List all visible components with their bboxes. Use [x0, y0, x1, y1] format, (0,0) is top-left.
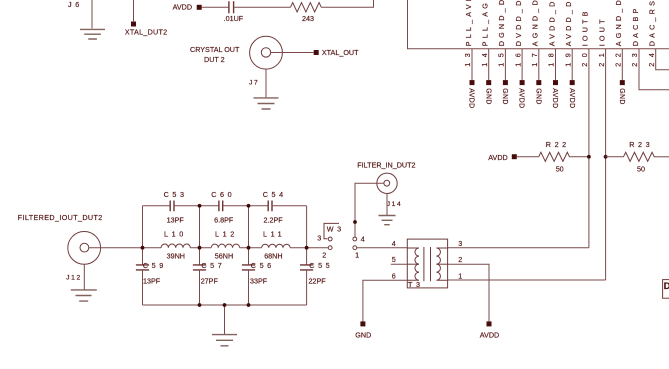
svg-text:J6: J6 — [68, 0, 83, 9]
wire T3 pin1 to IOUT line — [448, 279, 606, 281]
node junction (306.6,247.7) — [305, 246, 309, 250]
svg-text:T3: T3 — [408, 280, 424, 289]
wire rail at x=248.5 (bottom segment) — [248, 270, 250, 305]
wire R to top edge — [321, 0, 373, 7]
connector J6 (partial, top left) — [68, 0, 83, 9]
inductor L11 — [262, 230, 291, 261]
svg-text:W3: W3 — [327, 225, 345, 234]
wire J7 to XTAL_OUT — [271, 52, 314, 54]
wire top line C60 to rail — [223, 205, 249, 207]
ground (J7) — [254, 98, 279, 109]
wire DAC_RSET (pin 24) to right edge — [656, 49, 669, 70]
wire XTAL_DUT2 stub — [133, 0, 135, 21]
connector J14 FILTER_IN_DUT2 — [357, 160, 415, 208]
svg-text:13PF: 13PF — [167, 216, 185, 225]
svg-text:22PF: 22PF — [309, 276, 327, 285]
pin 17 AGND_DRV — [530, 0, 541, 105]
node junction (248.5,205.8) — [247, 204, 251, 208]
svg-text:33PF: 33PF — [250, 276, 268, 285]
svg-text:DACBP: DACBP — [631, 6, 640, 47]
wire J14 to W3 pin4 — [355, 183, 384, 237]
svg-text:IOUTB: IOUTB — [581, 8, 590, 46]
wire L12 to L11 — [240, 247, 262, 249]
wire rail at x=306.6 (top segment) — [306, 206, 308, 265]
svg-text:50: 50 — [556, 165, 564, 174]
node junction on J14 wire — [353, 220, 357, 224]
pin 15 DGND_DRV — [497, 0, 508, 105]
svg-text:L10: L10 — [164, 230, 187, 239]
wire J12 to filter input (main line) — [89, 247, 161, 249]
svg-text:23: 23 — [630, 48, 639, 67]
wire T3 pin2 to AVDD — [448, 264, 489, 321]
svg-text:L12: L12 — [215, 230, 238, 239]
node junction (142.5,247.7) — [141, 246, 145, 250]
ground (J6) — [80, 29, 105, 39]
svg-text:AVDD_DRV: AVDD_DRV — [547, 0, 556, 46]
svg-text:22: 22 — [614, 48, 623, 67]
svg-text:3: 3 — [458, 239, 462, 248]
wire rail at x=199.5 (top segment) — [199, 206, 201, 265]
pin 19 AVDD_DRV — [563, 0, 574, 109]
node AVDD (bottom) — [480, 321, 499, 339]
svg-text:2: 2 — [458, 255, 462, 264]
node junction (199.5,247.7) — [198, 246, 202, 250]
wire top line rail to next cap — [200, 205, 219, 207]
ground (J12) — [71, 290, 97, 301]
wire rail at x=142.5 (bottom segment) — [142, 270, 144, 305]
pin 21 IOUT — [597, 16, 607, 66]
wire rail at x=248.5 (top segment) — [248, 206, 250, 265]
svg-text:XTAL_DUT2: XTAL_DUT2 — [125, 27, 167, 36]
node junction (248.5,305.0) — [247, 303, 251, 307]
svg-text:2.2PF: 2.2PF — [264, 216, 284, 225]
svg-text:5: 5 — [392, 255, 396, 264]
node junction (199.5,205.8) — [198, 204, 202, 208]
svg-text:AVDD: AVDD — [468, 88, 475, 108]
svg-text:L11: L11 — [263, 230, 285, 239]
wire T3 pin5 stub — [391, 263, 408, 265]
svg-text:16: 16 — [513, 48, 522, 67]
node junction (224.5,305.0) — [223, 303, 227, 307]
svg-text:FILTERED_IOUT_DUT2: FILTERED_IOUT_DUT2 — [18, 213, 103, 222]
svg-text:GND: GND — [484, 88, 491, 105]
pin 16 DVDD_DRV — [513, 0, 524, 109]
svg-text:J7: J7 — [249, 79, 259, 86]
svg-text:18: 18 — [547, 48, 556, 67]
wire bottom rail — [143, 304, 307, 306]
pin 18 AVDD_DRV — [547, 0, 558, 109]
svg-text:14: 14 — [480, 48, 489, 67]
wire AVDD to C — [202, 6, 229, 8]
svg-text:GND: GND — [534, 88, 541, 105]
svg-text:21: 21 — [597, 48, 606, 67]
wire ground stem — [224, 305, 226, 334]
svg-text:R22: R22 — [546, 140, 570, 149]
svg-text:AVDD: AVDD — [480, 330, 499, 339]
wire J14 to ground — [386, 194, 388, 216]
svg-text:68NH: 68NH — [264, 252, 282, 261]
svg-text:3: 3 — [317, 233, 321, 242]
svg-text:19: 19 — [563, 48, 572, 67]
wire rail at x=306.6 (bottom segment) — [306, 270, 308, 305]
capacitor C53 — [164, 190, 188, 225]
svg-text:39NH: 39NH — [167, 252, 185, 261]
wire top line rail to next cap — [249, 205, 269, 207]
node junction (199.5,305.0) — [198, 303, 202, 307]
wire top line rail1 to C53 — [143, 205, 171, 207]
svg-text:56NH: 56NH — [215, 252, 233, 261]
wire T3 pin3 to IOUTB line — [448, 247, 589, 249]
svg-text:27PF: 27PF — [201, 276, 219, 285]
svg-text:DAC_RSET: DAC_RSET — [648, 0, 657, 46]
svg-text:DVDD_DRV: DVDD_DRV — [514, 0, 523, 46]
wire T3 pin6 to GND — [363, 280, 407, 321]
svg-text:PLL_AGND: PLL_AGND — [481, 0, 490, 46]
node XTAL_OUT — [314, 48, 359, 57]
svg-text:C60: C60 — [211, 190, 235, 199]
resistor R22 — [488, 140, 589, 174]
ground (filter) — [212, 335, 237, 346]
transformer T3 — [407, 239, 447, 289]
svg-text:GND: GND — [501, 88, 508, 105]
capacitor C55 — [300, 261, 333, 285]
svg-text:243: 243 — [302, 14, 314, 23]
svg-text:17: 17 — [530, 48, 539, 67]
svg-text:XTAL_OUT: XTAL_OUT — [322, 48, 359, 57]
svg-text:AVDD_DRV: AVDD_DRV — [564, 0, 573, 46]
resistor R23 — [604, 140, 669, 174]
svg-text:C57: C57 — [201, 261, 225, 270]
node AVDD (top) — [173, 2, 202, 11]
svg-text:GND: GND — [355, 330, 371, 339]
svg-text:AVDD: AVDD — [518, 88, 525, 108]
svg-text:FILTER_IN_DUT2: FILTER_IN_DUT2 — [357, 160, 415, 169]
node GND — [355, 321, 371, 339]
svg-text:DGND_DRV: DGND_DRV — [497, 0, 506, 46]
wire DACBP (pin 23) to right edge — [639, 49, 669, 90]
wire J6 stub — [91, 0, 93, 28]
wire W3 pin1 to T3 pin4 — [357, 247, 408, 249]
svg-text:.01UF: .01UF — [224, 14, 244, 23]
wire top line C53 to rail — [174, 205, 200, 207]
svg-text:1: 1 — [355, 251, 359, 260]
svg-text:4: 4 — [361, 235, 365, 244]
svg-text:6.8PF: 6.8PF — [214, 216, 234, 225]
connector J12 FILTERED_IOUT_DUT2 — [18, 213, 103, 282]
svg-text:IOUT: IOUT — [597, 16, 606, 46]
wire L10 to L12 — [190, 247, 211, 249]
svg-text:15: 15 — [497, 48, 506, 67]
svg-text:2: 2 — [322, 251, 326, 260]
inductor L10 — [161, 230, 190, 261]
pin 22 AGND_DRV — [614, 0, 625, 105]
capacitor C57 — [193, 261, 226, 285]
svg-text:AVDD: AVDD — [568, 88, 575, 108]
svg-text:AVDD: AVDD — [488, 153, 507, 162]
svg-text:1: 1 — [458, 271, 462, 280]
svg-text:R23: R23 — [629, 140, 653, 149]
svg-text:CRYSTAL OUT: CRYSTAL OUT — [190, 45, 240, 54]
capacitor C54 — [263, 190, 287, 225]
svg-text:C53: C53 — [164, 190, 188, 199]
svg-text:20: 20 — [580, 48, 589, 67]
connector J7 CRYSTAL OUT DUT 2 — [190, 36, 282, 86]
wire IOUT (pin 21) down to T3 pin 1 — [605, 49, 607, 280]
pin 14 PLL_AGND — [480, 0, 491, 105]
resistor 243 — [291, 3, 322, 23]
ground (J14) — [379, 216, 396, 225]
wire L11 to W3 pin2 — [290, 247, 328, 249]
svg-text:13: 13 — [463, 48, 472, 67]
capacitor C56 — [242, 261, 275, 285]
svg-text:50: 50 — [637, 165, 645, 174]
svg-text:J12: J12 — [66, 275, 82, 282]
box D (right edge) — [663, 280, 669, 299]
svg-text:AGND_DRV: AGND_DRV — [614, 0, 623, 46]
svg-text:AVDD: AVDD — [173, 2, 192, 11]
svg-text:C55: C55 — [309, 261, 333, 270]
pin 23 DACBP — [630, 6, 640, 67]
wire rail at x=142.5 (top segment) — [142, 206, 144, 265]
node junction R22/IOUTB — [587, 155, 591, 159]
jumper W3 — [317, 223, 365, 259]
svg-text:GND: GND — [618, 88, 625, 105]
inductor L12 — [211, 230, 239, 261]
pin 24 DAC_RSET — [647, 0, 657, 67]
pin 13 PLL_AVDD — [463, 0, 474, 109]
wire IOUTB (pin 20) down to T3 pin 3 — [588, 49, 590, 248]
svg-text:13PF: 13PF — [143, 276, 161, 285]
node XTAL_DUT2 — [125, 22, 167, 37]
capacitor .01UF — [224, 1, 244, 23]
svg-text:4: 4 — [392, 239, 396, 248]
wire top line C54 to rail — [272, 205, 307, 207]
svg-text:AVDD: AVDD — [551, 88, 558, 108]
op-amp U1 IC outline (partial, top right) — [408, 0, 669, 49]
svg-text:6: 6 — [392, 271, 396, 280]
capacitor C59 — [136, 261, 167, 285]
wire C to R — [234, 6, 290, 8]
svg-text:C59: C59 — [143, 261, 167, 270]
wire J12 to ground — [83, 264, 85, 289]
svg-text:C56: C56 — [251, 261, 275, 270]
wire J7 to ground — [265, 69, 267, 98]
node junction (248.5,247.7) — [247, 246, 251, 250]
wire rail at x=199.5 (bottom segment) — [199, 270, 201, 305]
svg-text:24: 24 — [647, 48, 656, 67]
svg-text:AGND_DRV: AGND_DRV — [531, 0, 540, 46]
svg-text:PLL_AVDD: PLL_AVDD — [464, 0, 473, 46]
pin 20 IOUTB — [580, 8, 590, 66]
svg-text:C54: C54 — [263, 190, 287, 199]
svg-text:D: D — [664, 281, 669, 292]
svg-text:DUT 2: DUT 2 — [204, 55, 225, 64]
svg-text:J14: J14 — [387, 201, 403, 208]
capacitor C60 — [211, 190, 235, 225]
